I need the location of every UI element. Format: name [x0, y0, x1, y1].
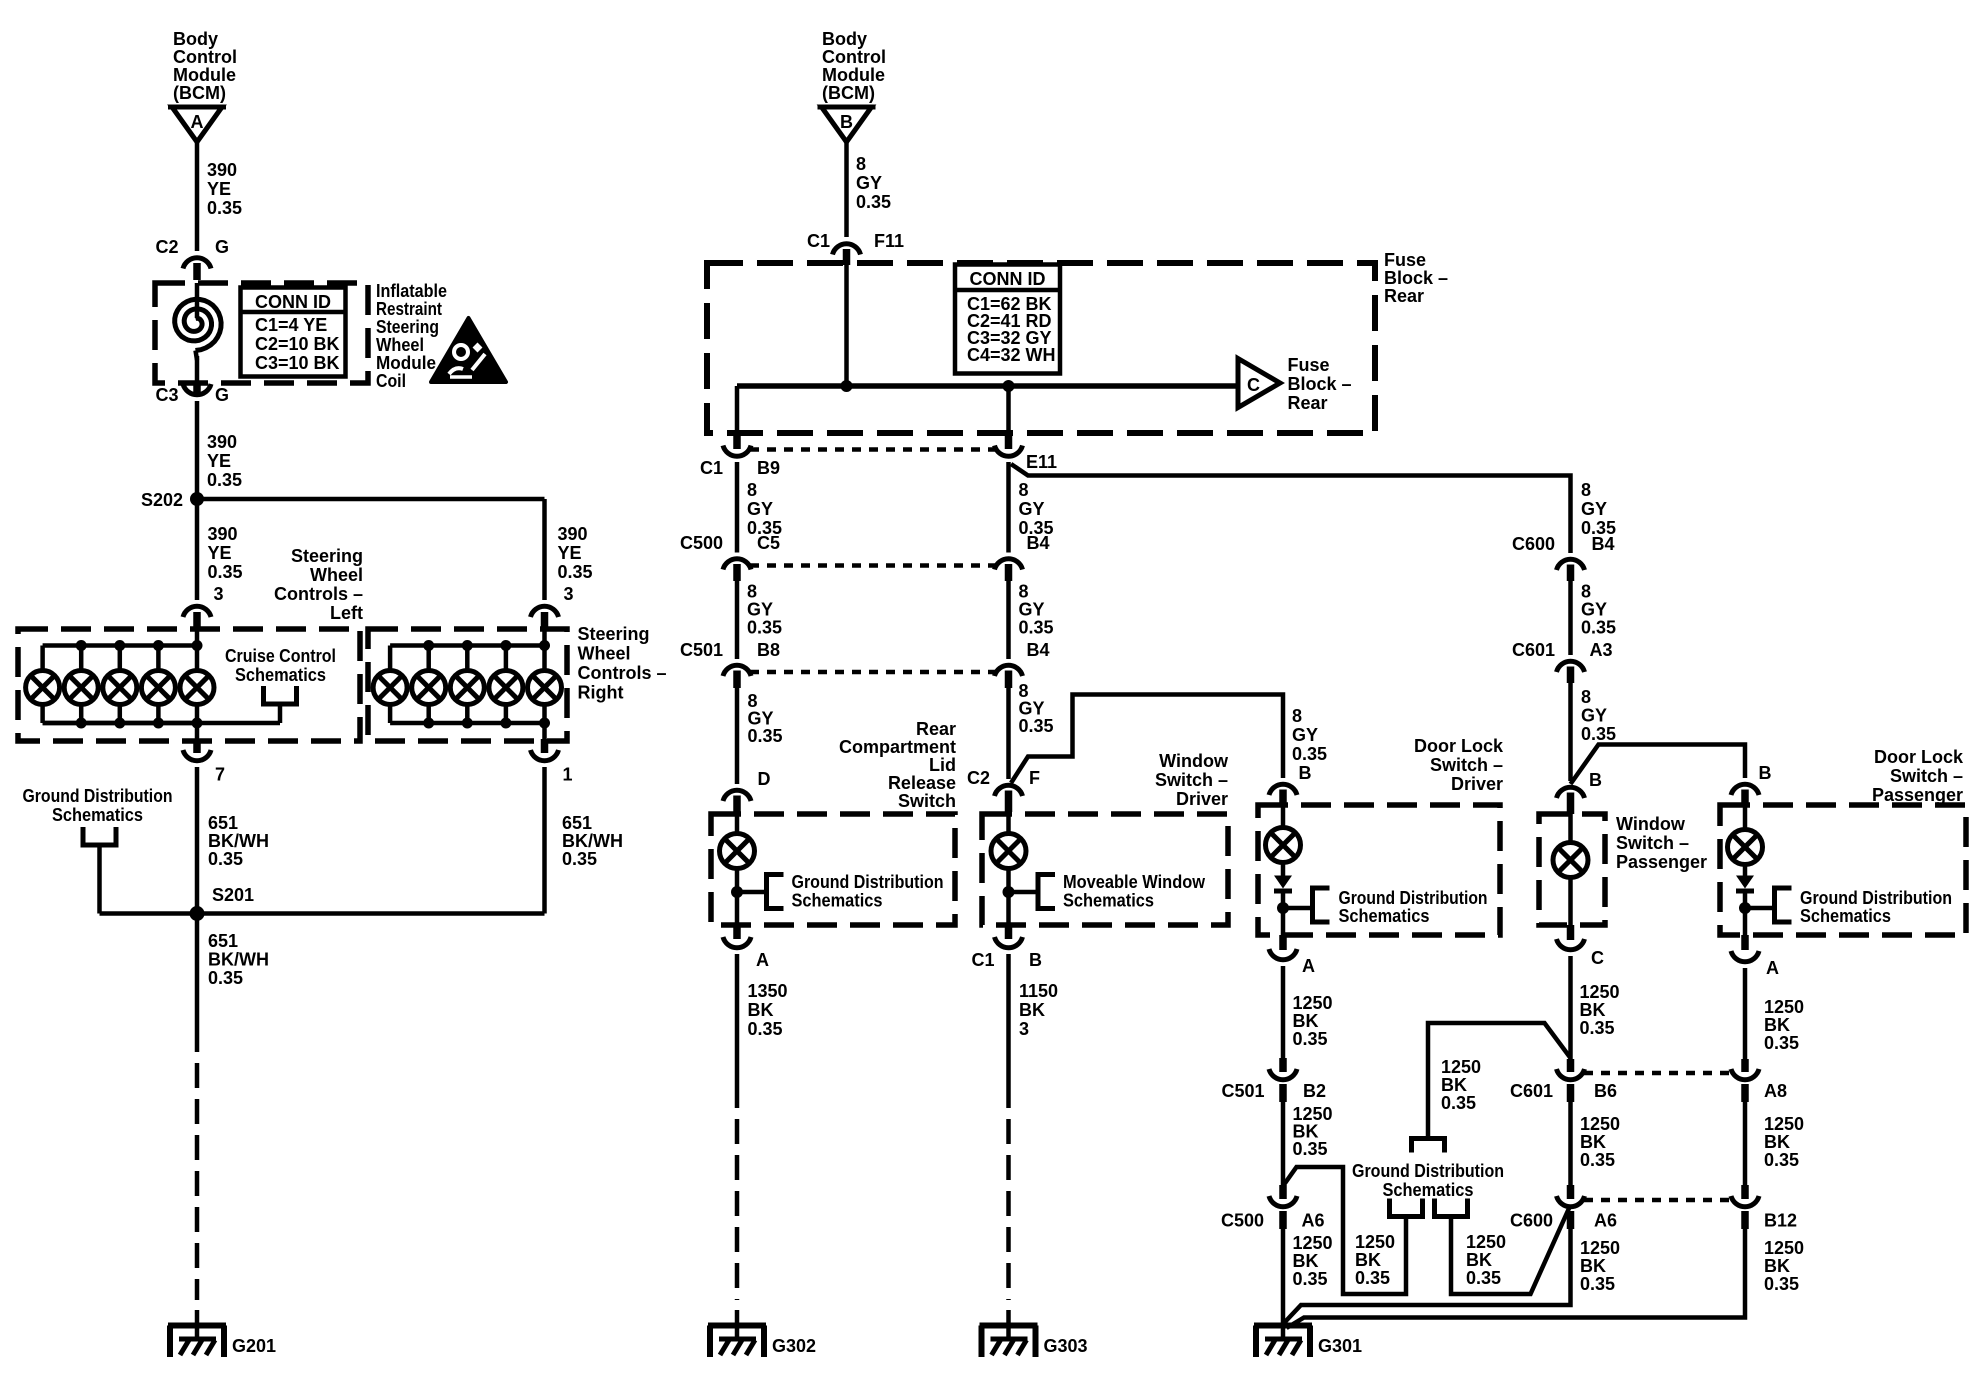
svg-text:Driver: Driver	[1451, 774, 1503, 794]
svg-text:G201: G201	[232, 1336, 276, 1356]
svg-text:1250: 1250	[1441, 1057, 1481, 1077]
svg-text:Switch –: Switch –	[1430, 755, 1503, 775]
svg-text:BK: BK	[1019, 1000, 1045, 1020]
svg-text:B2: B2	[1303, 1081, 1326, 1101]
svg-text:B: B	[1029, 950, 1042, 970]
svg-text:390: 390	[208, 524, 238, 544]
svg-text:390: 390	[207, 160, 237, 180]
svg-text:Switch: Switch	[898, 791, 956, 811]
svg-text:B4: B4	[1027, 640, 1050, 660]
svg-text:1250: 1250	[1580, 1114, 1620, 1134]
svg-text:(BCM): (BCM)	[822, 83, 875, 103]
svg-text:BK: BK	[1293, 1251, 1319, 1271]
svg-text:8: 8	[1581, 480, 1591, 500]
svg-text:0.35: 0.35	[1764, 1033, 1799, 1053]
svg-text:B12: B12	[1764, 1211, 1797, 1231]
svg-text:C4=32 WH: C4=32 WH	[967, 345, 1056, 365]
svg-text:Window: Window	[1159, 751, 1229, 771]
svg-text:Ground Distribution: Ground Distribution	[1339, 888, 1488, 908]
svg-text:C500: C500	[1221, 1211, 1264, 1231]
svg-text:C600: C600	[1510, 1211, 1553, 1231]
svg-text:Rear: Rear	[916, 719, 956, 739]
svg-text:8: 8	[1581, 687, 1591, 707]
svg-text:651: 651	[562, 813, 592, 833]
svg-text:GY: GY	[747, 600, 773, 620]
svg-text:B6: B6	[1594, 1081, 1617, 1101]
svg-text:Schematics: Schematics	[1063, 891, 1154, 911]
svg-text:1250: 1250	[1764, 997, 1804, 1017]
svg-text:Body: Body	[822, 29, 867, 49]
svg-text:1150: 1150	[1019, 981, 1058, 1001]
svg-text:Release: Release	[888, 773, 956, 793]
svg-text:GY: GY	[856, 173, 882, 193]
svg-text:Ground Distribution: Ground Distribution	[1800, 888, 1952, 908]
svg-text:390: 390	[207, 432, 237, 452]
svg-text:0.35: 0.35	[1293, 1139, 1328, 1159]
svg-text:B4: B4	[1592, 534, 1615, 554]
svg-text:Right: Right	[578, 683, 624, 703]
svg-text:0.35: 0.35	[1764, 1150, 1799, 1170]
svg-text:B: B	[840, 112, 853, 132]
svg-text:Body: Body	[173, 29, 218, 49]
svg-text:0.35: 0.35	[1293, 1029, 1328, 1049]
svg-text:BK: BK	[1580, 1000, 1606, 1020]
svg-text:Steering: Steering	[291, 546, 363, 566]
svg-text:Schematics: Schematics	[1383, 1180, 1474, 1200]
svg-text:YE: YE	[207, 451, 231, 471]
svg-text:BK/WH: BK/WH	[562, 831, 623, 851]
svg-text:C1: C1	[700, 458, 723, 478]
svg-text:BK: BK	[1764, 1015, 1790, 1035]
svg-text:D: D	[758, 769, 771, 789]
svg-text:A8: A8	[1764, 1081, 1787, 1101]
svg-text:BK/WH: BK/WH	[208, 950, 269, 970]
svg-text:1250: 1250	[1580, 1238, 1620, 1258]
svg-text:A3: A3	[1590, 640, 1613, 660]
svg-text:YE: YE	[208, 543, 232, 563]
svg-text:8: 8	[747, 480, 757, 500]
svg-text:C601: C601	[1512, 640, 1555, 660]
svg-text:GY: GY	[1292, 725, 1318, 745]
svg-text:Lid: Lid	[929, 755, 956, 775]
svg-text:Module: Module	[173, 65, 236, 85]
svg-text:BK: BK	[1293, 1011, 1319, 1031]
svg-text:A: A	[191, 112, 204, 132]
svg-text:C3=10 BK: C3=10 BK	[255, 353, 340, 373]
svg-text:F11: F11	[874, 231, 904, 251]
svg-text:0.35: 0.35	[1019, 716, 1054, 736]
svg-text:Ground Distribution: Ground Distribution	[1352, 1161, 1504, 1181]
svg-text:Module: Module	[822, 65, 885, 85]
svg-text:0.35: 0.35	[856, 192, 891, 212]
svg-text:Fuse: Fuse	[1288, 355, 1330, 375]
svg-text:Switch –: Switch –	[1616, 833, 1689, 853]
svg-text:Coil: Coil	[376, 371, 406, 391]
svg-text:B: B	[1589, 770, 1602, 790]
svg-text:C5: C5	[757, 533, 780, 553]
svg-text:Schematics: Schematics	[792, 891, 883, 911]
svg-text:1250: 1250	[1293, 1233, 1333, 1253]
svg-text:A6: A6	[1302, 1211, 1325, 1231]
svg-text:0.35: 0.35	[1019, 618, 1054, 638]
svg-text:Steering: Steering	[376, 317, 439, 337]
svg-text:CONN ID: CONN ID	[255, 292, 331, 312]
svg-text:Switch –: Switch –	[1890, 766, 1963, 786]
svg-text:Wheel: Wheel	[578, 644, 631, 664]
svg-text:0.35: 0.35	[1764, 1274, 1799, 1294]
svg-text:8: 8	[1581, 582, 1591, 602]
svg-text:Compartment: Compartment	[839, 737, 956, 757]
svg-text:0.35: 0.35	[1355, 1268, 1390, 1288]
svg-text:Ground Distribution: Ground Distribution	[792, 872, 944, 892]
svg-text:A: A	[756, 950, 769, 970]
svg-text:0.35: 0.35	[1580, 1150, 1615, 1170]
svg-text:651: 651	[208, 813, 238, 833]
svg-text:8: 8	[856, 154, 866, 174]
svg-text:C1: C1	[971, 950, 994, 970]
svg-text:Switch –: Switch –	[1155, 770, 1228, 790]
svg-text:Schematics: Schematics	[52, 805, 143, 825]
svg-text:0.35: 0.35	[558, 562, 593, 582]
svg-text:C2: C2	[967, 768, 990, 788]
svg-text:GY: GY	[1581, 499, 1607, 519]
svg-text:Restraint: Restraint	[376, 299, 442, 319]
svg-text:Wheel: Wheel	[376, 335, 424, 355]
svg-text:0.35: 0.35	[1441, 1093, 1476, 1113]
svg-text:0.35: 0.35	[207, 198, 242, 218]
svg-text:Passenger: Passenger	[1872, 785, 1963, 805]
svg-text:Rear: Rear	[1288, 393, 1328, 413]
svg-text:Schematics: Schematics	[1800, 906, 1891, 926]
svg-text:Fuse: Fuse	[1384, 250, 1426, 270]
svg-text:GY: GY	[1019, 600, 1045, 620]
svg-text:G301: G301	[1318, 1336, 1362, 1356]
svg-text:1: 1	[563, 765, 573, 785]
svg-text:G: G	[215, 237, 229, 257]
svg-text:8: 8	[747, 582, 757, 602]
svg-text:G302: G302	[772, 1336, 816, 1356]
svg-text:1250: 1250	[1764, 1114, 1804, 1134]
svg-text:GY: GY	[747, 499, 773, 519]
svg-text:C2: C2	[155, 237, 178, 257]
svg-text:YE: YE	[207, 179, 231, 199]
svg-text:B8: B8	[757, 640, 780, 660]
svg-text:390: 390	[558, 524, 588, 544]
svg-text:GY: GY	[1019, 499, 1045, 519]
svg-text:Door Lock: Door Lock	[1874, 747, 1964, 767]
svg-text:Controls –: Controls –	[274, 584, 363, 604]
svg-text:BK: BK	[1580, 1256, 1606, 1276]
svg-text:C1=4 YE: C1=4 YE	[255, 315, 327, 335]
svg-text:1250: 1250	[1466, 1232, 1506, 1252]
svg-text:0.35: 0.35	[208, 562, 243, 582]
svg-text:8: 8	[1019, 480, 1029, 500]
svg-text:Rear: Rear	[1384, 286, 1424, 306]
svg-text:Passenger: Passenger	[1616, 852, 1707, 872]
svg-text:C1: C1	[807, 231, 830, 251]
svg-text:BK: BK	[1764, 1132, 1790, 1152]
svg-text:B4: B4	[1027, 533, 1050, 553]
svg-text:Schematics: Schematics	[235, 665, 326, 685]
svg-text:0.35: 0.35	[747, 618, 782, 638]
svg-text:0.35: 0.35	[208, 968, 243, 988]
svg-text:BK: BK	[1580, 1132, 1606, 1152]
svg-text:B: B	[1759, 763, 1772, 783]
svg-text:1250: 1250	[1293, 993, 1333, 1013]
svg-text:Moveable Window: Moveable Window	[1063, 872, 1206, 892]
svg-text:G: G	[215, 385, 229, 405]
svg-text:Controls –: Controls –	[578, 663, 667, 683]
svg-text:BK: BK	[1355, 1250, 1381, 1270]
svg-text:0.35: 0.35	[207, 470, 242, 490]
svg-text:0.35: 0.35	[748, 1019, 783, 1039]
svg-text:Door Lock: Door Lock	[1414, 736, 1504, 756]
svg-text:1250: 1250	[1355, 1232, 1395, 1252]
svg-text:F: F	[1029, 768, 1040, 788]
svg-text:GY: GY	[1581, 600, 1607, 620]
svg-text:BK: BK	[748, 1000, 774, 1020]
svg-text:C2=10 BK: C2=10 BK	[255, 334, 340, 354]
svg-text:8: 8	[1019, 582, 1029, 602]
svg-text:S202: S202	[141, 490, 183, 510]
svg-text:C500: C500	[680, 533, 723, 553]
svg-text:3: 3	[1019, 1019, 1029, 1039]
svg-text:Cruise Control: Cruise Control	[225, 646, 336, 666]
svg-text:0.35: 0.35	[1581, 724, 1616, 744]
svg-text:G303: G303	[1044, 1336, 1088, 1356]
svg-text:Block –: Block –	[1384, 268, 1448, 288]
svg-text:3: 3	[564, 584, 574, 604]
svg-text:Inflatable: Inflatable	[376, 281, 447, 301]
svg-text:651: 651	[208, 931, 238, 951]
svg-text:BK: BK	[1441, 1075, 1467, 1095]
svg-text:0.35: 0.35	[1293, 1269, 1328, 1289]
svg-text:C601: C601	[1510, 1081, 1553, 1101]
svg-text:0.35: 0.35	[1580, 1274, 1615, 1294]
svg-text:C: C	[1591, 948, 1604, 968]
svg-text:0.35: 0.35	[1581, 618, 1616, 638]
svg-text:A: A	[1302, 956, 1315, 976]
svg-text:C: C	[1247, 375, 1260, 395]
svg-text:1350: 1350	[748, 981, 788, 1001]
svg-text:0.35: 0.35	[1580, 1018, 1615, 1038]
svg-text:BK/WH: BK/WH	[208, 831, 269, 851]
svg-text:Driver: Driver	[1176, 789, 1228, 809]
svg-text:Control: Control	[822, 47, 886, 67]
svg-text:C501: C501	[680, 640, 723, 660]
svg-text:1250: 1250	[1580, 982, 1620, 1002]
svg-text:Left: Left	[330, 603, 363, 623]
svg-text:Steering: Steering	[578, 624, 650, 644]
svg-text:8: 8	[1292, 706, 1302, 726]
svg-text:0.35: 0.35	[208, 849, 243, 869]
svg-text:C501: C501	[1221, 1081, 1264, 1101]
svg-text:BK: BK	[1764, 1256, 1790, 1276]
svg-text:1250: 1250	[1764, 1238, 1804, 1258]
svg-text:B9: B9	[757, 458, 780, 478]
svg-text:0.35: 0.35	[562, 849, 597, 869]
svg-text:C3: C3	[155, 385, 178, 405]
svg-text:Module: Module	[376, 353, 436, 373]
svg-text:Control: Control	[173, 47, 237, 67]
svg-text:Block –: Block –	[1288, 374, 1352, 394]
svg-text:Window: Window	[1616, 814, 1686, 834]
svg-text:(BCM): (BCM)	[173, 83, 226, 103]
svg-text:Schematics: Schematics	[1339, 906, 1430, 926]
svg-text:0.35: 0.35	[748, 726, 783, 746]
svg-text:C600: C600	[1512, 534, 1555, 554]
svg-text:BK: BK	[1466, 1250, 1492, 1270]
svg-text:7: 7	[215, 765, 225, 785]
svg-text:S201: S201	[212, 885, 254, 905]
svg-text:3: 3	[214, 584, 224, 604]
svg-text:0.35: 0.35	[1292, 744, 1327, 764]
svg-text:CONN ID: CONN ID	[970, 269, 1046, 289]
svg-text:E11: E11	[1026, 452, 1057, 472]
svg-text:YE: YE	[558, 543, 582, 563]
svg-text:0.35: 0.35	[1466, 1268, 1501, 1288]
svg-text:A6: A6	[1594, 1211, 1617, 1231]
svg-text:Wheel: Wheel	[310, 565, 363, 585]
svg-text:B: B	[1299, 763, 1312, 783]
svg-text:Ground Distribution: Ground Distribution	[23, 786, 173, 806]
svg-text:GY: GY	[1581, 706, 1607, 726]
svg-text:A: A	[1766, 958, 1779, 978]
